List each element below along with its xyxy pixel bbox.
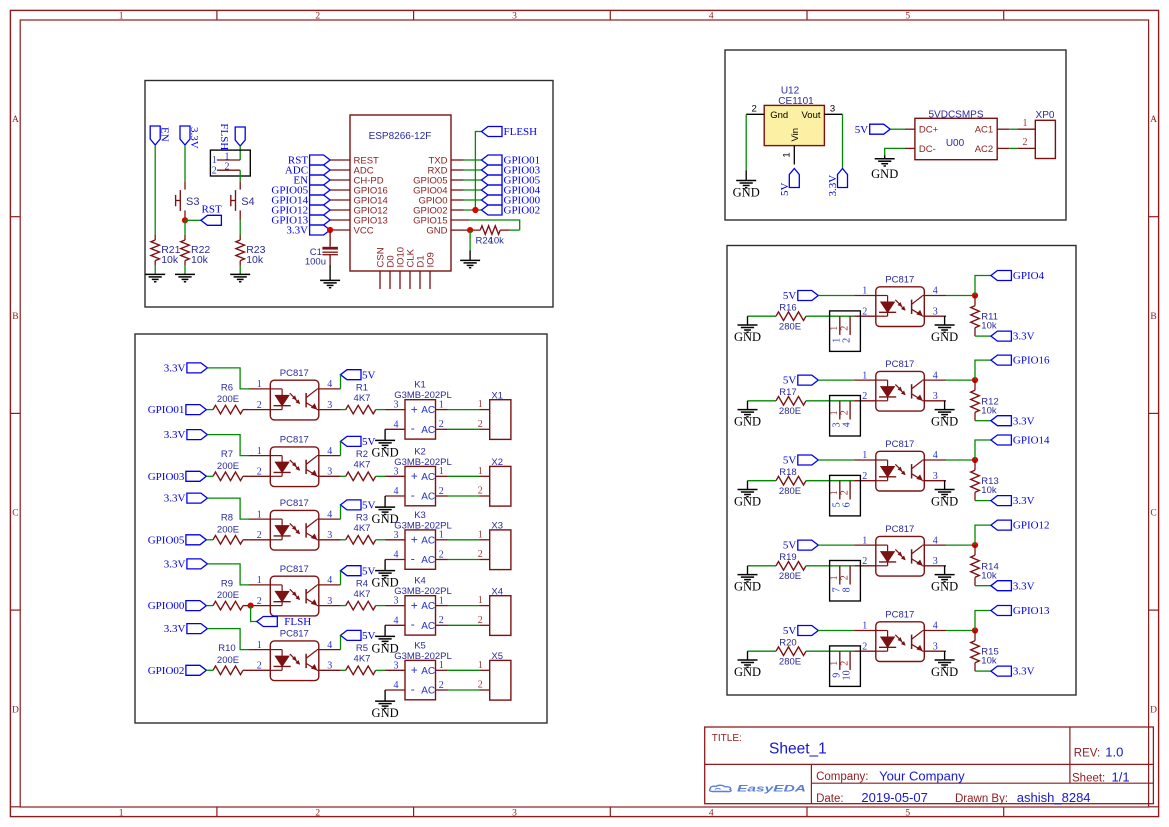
svg-text:R17: R17 — [779, 387, 796, 398]
svg-text:4: 4 — [394, 550, 399, 561]
svg-text:GPIO4: GPIO4 — [1013, 270, 1045, 282]
svg-text:R18: R18 — [779, 467, 796, 478]
svg-text:ashish_8284: ashish_8284 — [1017, 790, 1091, 805]
svg-text:3: 3 — [394, 660, 399, 671]
svg-text:3.3V: 3.3V — [286, 225, 308, 237]
svg-text:4: 4 — [394, 486, 399, 497]
svg-text:10k: 10k — [489, 236, 505, 247]
svg-text:10k: 10k — [981, 570, 997, 581]
svg-text:+: + — [411, 533, 418, 547]
svg-text:2: 2 — [439, 486, 444, 497]
svg-text:3.3V: 3.3V — [1013, 666, 1035, 678]
svg-text:Gnd: Gnd — [770, 110, 788, 121]
svg-text:1: 1 — [439, 595, 444, 606]
svg-text:2: 2 — [840, 575, 851, 580]
svg-text:4: 4 — [933, 370, 938, 381]
svg-text:AC: AC — [421, 405, 435, 416]
svg-text:R7: R7 — [221, 449, 233, 460]
svg-text:U00: U00 — [946, 138, 965, 149]
svg-text:AC: AC — [421, 666, 435, 677]
svg-text:4: 4 — [933, 450, 938, 461]
svg-text:4: 4 — [327, 640, 332, 651]
svg-text:R20: R20 — [779, 638, 796, 649]
svg-text:3.3V: 3.3V — [1013, 495, 1035, 507]
svg-text:3: 3 — [933, 306, 938, 317]
svg-text:CE1101: CE1101 — [778, 96, 814, 107]
svg-text:3: 3 — [933, 641, 938, 652]
svg-text:3.3V: 3.3V — [164, 559, 186, 571]
svg-text:PC817: PC817 — [885, 524, 914, 535]
svg-text:2: 2 — [842, 338, 853, 343]
svg-text:4: 4 — [394, 680, 399, 691]
svg-text:S4: S4 — [241, 196, 254, 208]
svg-text:X3: X3 — [491, 521, 503, 532]
svg-text:4: 4 — [842, 422, 853, 427]
svg-text:5: 5 — [905, 808, 910, 818]
svg-text:AC: AC — [421, 686, 435, 697]
svg-text:D: D — [1150, 705, 1157, 715]
svg-text:2: 2 — [257, 530, 262, 541]
svg-text:2: 2 — [257, 400, 262, 411]
svg-text:280E: 280E — [779, 321, 801, 332]
svg-text:REV:: REV: — [1074, 747, 1100, 759]
svg-text:3: 3 — [512, 12, 517, 22]
svg-text:1: 1 — [1023, 118, 1028, 129]
svg-text:2: 2 — [439, 615, 444, 626]
svg-text:4: 4 — [327, 446, 332, 457]
svg-text:GND: GND — [931, 495, 958, 509]
svg-text:GND: GND — [426, 225, 447, 236]
svg-text:5V: 5V — [779, 183, 791, 197]
svg-text:AC: AC — [421, 492, 435, 503]
svg-text:1: 1 — [257, 640, 262, 651]
svg-text:2: 2 — [840, 490, 851, 495]
svg-text:2: 2 — [478, 419, 483, 430]
svg-text:+: + — [411, 598, 418, 612]
svg-text:4: 4 — [327, 509, 332, 520]
svg-text:DC+: DC+ — [919, 125, 939, 136]
svg-text:3: 3 — [327, 530, 332, 541]
svg-text:1: 1 — [478, 399, 483, 410]
svg-text:Vin: Vin — [790, 128, 801, 142]
svg-text:X2: X2 — [491, 457, 503, 468]
svg-text:AC: AC — [421, 472, 435, 483]
svg-text:3: 3 — [394, 530, 399, 541]
svg-text:4: 4 — [327, 379, 332, 390]
svg-text:10k: 10k — [981, 656, 997, 667]
svg-text:4: 4 — [394, 419, 399, 430]
svg-text:1: 1 — [257, 446, 262, 457]
svg-text:3.3V: 3.3V — [164, 493, 186, 505]
svg-text:PC817: PC817 — [280, 368, 309, 379]
svg-text:2: 2 — [862, 641, 867, 652]
svg-text:R3: R3 — [356, 513, 368, 524]
svg-text:AC: AC — [421, 601, 435, 612]
svg-text:Date:: Date: — [816, 793, 844, 805]
svg-text:FLESH: FLESH — [504, 126, 538, 138]
svg-text:2: 2 — [257, 467, 262, 478]
svg-text:3: 3 — [933, 556, 938, 567]
svg-text:GND: GND — [733, 186, 760, 200]
svg-text:2: 2 — [1023, 137, 1028, 148]
svg-text:AC: AC — [421, 555, 435, 566]
svg-text:3.3V: 3.3V — [188, 127, 200, 149]
svg-text:GPIO05: GPIO05 — [148, 534, 185, 546]
svg-text:Sheet_1: Sheet_1 — [769, 740, 827, 757]
svg-text:1: 1 — [478, 660, 483, 671]
svg-text:1: 1 — [862, 535, 867, 546]
svg-text:5V: 5V — [783, 540, 797, 552]
svg-text:5V: 5V — [362, 630, 376, 642]
svg-text:PC817: PC817 — [885, 275, 914, 286]
svg-text:GPIO16: GPIO16 — [1013, 355, 1050, 367]
svg-text:2: 2 — [862, 556, 867, 567]
svg-text:PC817: PC817 — [280, 564, 309, 575]
svg-text:PC817: PC817 — [280, 435, 309, 446]
svg-text:4: 4 — [394, 615, 399, 626]
svg-text:5V: 5V — [855, 124, 869, 136]
svg-text:2: 2 — [257, 596, 262, 607]
svg-text:AC1: AC1 — [975, 125, 993, 136]
svg-text:3: 3 — [327, 467, 332, 478]
svg-text:1: 1 — [439, 660, 444, 671]
svg-text:5: 5 — [905, 12, 910, 22]
svg-text:1: 1 — [862, 370, 867, 381]
svg-text:2: 2 — [752, 103, 757, 114]
svg-text:10k: 10k — [246, 254, 264, 266]
svg-text:A: A — [12, 115, 19, 125]
svg-text:GPIO14: GPIO14 — [1013, 435, 1050, 447]
svg-text:280E: 280E — [779, 486, 801, 497]
svg-text:2: 2 — [840, 410, 851, 415]
svg-text:1.0: 1.0 — [1105, 745, 1123, 760]
svg-text:2: 2 — [315, 12, 320, 22]
svg-text:2: 2 — [439, 549, 444, 560]
svg-text:D: D — [12, 705, 19, 715]
svg-text:10k: 10k — [161, 254, 179, 266]
svg-text:PC817: PC817 — [885, 359, 914, 370]
svg-text:Sheet:: Sheet: — [1072, 772, 1105, 784]
svg-text:2: 2 — [212, 165, 217, 176]
svg-text:Drawn By:: Drawn By: — [955, 793, 1008, 805]
svg-text:1: 1 — [862, 450, 867, 461]
svg-text:10k: 10k — [981, 405, 997, 416]
svg-text:10k: 10k — [981, 321, 997, 332]
svg-text:3.3V: 3.3V — [1013, 331, 1035, 343]
svg-text:3.3V: 3.3V — [164, 429, 186, 441]
svg-text:4: 4 — [327, 575, 332, 586]
svg-text:1: 1 — [439, 399, 444, 410]
svg-text:2019-05-07: 2019-05-07 — [861, 790, 928, 805]
svg-text:GND: GND — [734, 580, 761, 594]
svg-text:R2: R2 — [356, 449, 368, 460]
svg-text:3: 3 — [394, 596, 399, 607]
svg-text:X4: X4 — [491, 586, 503, 597]
svg-text:2: 2 — [478, 680, 483, 691]
svg-text:AC: AC — [421, 535, 435, 546]
svg-text:R8: R8 — [221, 513, 233, 524]
svg-text:GND: GND — [734, 665, 761, 679]
svg-text:3.3V: 3.3V — [164, 363, 186, 375]
svg-text:4K7: 4K7 — [354, 589, 371, 600]
svg-text:K5: K5 — [414, 640, 426, 651]
svg-text:S3: S3 — [186, 196, 199, 208]
svg-text:3.3V: 3.3V — [164, 623, 186, 635]
svg-text:GND: GND — [734, 495, 761, 509]
svg-text:IO9: IO9 — [425, 252, 436, 267]
svg-text:GND: GND — [931, 330, 958, 344]
svg-text:2: 2 — [439, 680, 444, 691]
svg-text:5V: 5V — [362, 500, 376, 512]
svg-text:GND: GND — [931, 665, 958, 679]
svg-text:GND: GND — [931, 580, 958, 594]
svg-text:3: 3 — [394, 466, 399, 477]
svg-text:5V: 5V — [783, 455, 797, 467]
svg-text:4: 4 — [933, 621, 938, 632]
svg-text:AC: AC — [421, 425, 435, 436]
svg-text:2: 2 — [257, 661, 262, 672]
svg-text:R9: R9 — [221, 578, 233, 589]
svg-text:1: 1 — [782, 152, 793, 157]
svg-text:-: - — [411, 617, 415, 631]
svg-text:U12: U12 — [781, 86, 800, 97]
svg-text:R6: R6 — [221, 382, 233, 393]
svg-text:GND: GND — [931, 415, 958, 429]
svg-text:1: 1 — [862, 286, 867, 297]
svg-text:5V: 5V — [362, 436, 376, 448]
svg-text:1: 1 — [257, 509, 262, 520]
svg-text:GND: GND — [734, 415, 761, 429]
svg-text:-: - — [411, 421, 415, 435]
svg-text:1: 1 — [257, 379, 262, 390]
svg-text:4: 4 — [709, 12, 714, 22]
svg-text:Vout: Vout — [801, 110, 820, 121]
svg-text:B: B — [12, 312, 18, 322]
svg-text:6: 6 — [842, 502, 853, 507]
svg-text:2: 2 — [840, 326, 851, 331]
svg-text:R5: R5 — [356, 643, 368, 654]
svg-text:TITLE:: TITLE: — [712, 733, 742, 744]
svg-text:4K7: 4K7 — [354, 393, 371, 404]
svg-text:5VDCSMPS: 5VDCSMPS — [928, 109, 983, 120]
svg-text:3.3V: 3.3V — [1013, 580, 1035, 592]
svg-text:ESP8266-12F: ESP8266-12F — [369, 131, 432, 142]
svg-text:2: 2 — [315, 808, 320, 818]
svg-text:3: 3 — [512, 808, 517, 818]
svg-text:2: 2 — [862, 306, 867, 317]
svg-text:200E: 200E — [217, 394, 239, 405]
svg-text:2: 2 — [478, 615, 483, 626]
svg-text:A: A — [1150, 115, 1157, 125]
svg-text:PC817: PC817 — [885, 610, 914, 621]
svg-text:K3: K3 — [414, 510, 426, 521]
svg-text:GPIO02: GPIO02 — [148, 665, 185, 677]
svg-text:1: 1 — [257, 575, 262, 586]
svg-text:280E: 280E — [779, 406, 801, 417]
svg-text:2: 2 — [478, 486, 483, 497]
svg-text:3.3V: 3.3V — [827, 175, 839, 197]
svg-text:200E: 200E — [217, 590, 239, 601]
svg-text:1/1: 1/1 — [1112, 770, 1130, 785]
svg-text:Company:: Company: — [816, 771, 868, 783]
svg-text:EN: EN — [159, 127, 171, 142]
svg-text:GPIO13: GPIO13 — [1013, 605, 1050, 617]
svg-text:4K7: 4K7 — [354, 523, 371, 534]
svg-text:4: 4 — [933, 535, 938, 546]
svg-text:1: 1 — [478, 595, 483, 606]
svg-text:200E: 200E — [217, 461, 239, 472]
svg-text:-: - — [411, 682, 415, 696]
svg-text:2: 2 — [225, 162, 230, 173]
svg-text:AC: AC — [421, 621, 435, 632]
svg-text:-: - — [411, 551, 415, 565]
svg-text:1: 1 — [478, 466, 483, 477]
svg-text:PC817: PC817 — [280, 498, 309, 509]
svg-text:K2: K2 — [414, 446, 426, 457]
svg-text:FLSH: FLSH — [284, 616, 311, 628]
svg-text:Your Company: Your Company — [879, 769, 965, 784]
svg-text:4: 4 — [709, 808, 714, 818]
svg-text:2: 2 — [439, 419, 444, 430]
svg-text:4: 4 — [933, 286, 938, 297]
svg-text:+: + — [411, 402, 418, 416]
svg-text:3: 3 — [327, 596, 332, 607]
svg-text:5V: 5V — [362, 369, 376, 381]
svg-text:1: 1 — [119, 12, 124, 22]
svg-text:XP0: XP0 — [1036, 110, 1055, 121]
svg-text:1: 1 — [119, 808, 124, 818]
svg-text:FLSH: FLSH — [218, 123, 230, 150]
svg-text:5V: 5V — [783, 290, 797, 302]
svg-text:PC817: PC817 — [280, 629, 309, 640]
svg-text:R1: R1 — [356, 382, 368, 393]
svg-text:100u: 100u — [305, 257, 326, 268]
svg-text:3: 3 — [327, 400, 332, 411]
svg-text:5V: 5V — [362, 565, 376, 577]
svg-text:GPIO03: GPIO03 — [148, 471, 185, 483]
svg-text:GND: GND — [871, 167, 898, 181]
svg-text:C: C — [12, 509, 18, 519]
svg-text:8: 8 — [842, 587, 853, 592]
svg-text:-: - — [411, 488, 415, 502]
svg-text:280E: 280E — [779, 571, 801, 582]
svg-text:2: 2 — [862, 391, 867, 402]
svg-text:3: 3 — [830, 103, 835, 114]
svg-text:R16: R16 — [779, 303, 796, 314]
svg-text:X5: X5 — [491, 651, 503, 662]
svg-text:5V: 5V — [783, 625, 797, 637]
svg-text:+: + — [411, 469, 418, 483]
svg-text:GPIO00: GPIO00 — [148, 600, 185, 612]
svg-text:PC817: PC817 — [885, 439, 914, 450]
svg-text:1: 1 — [439, 530, 444, 541]
svg-text:GPIO01: GPIO01 — [148, 404, 185, 416]
svg-text:K4: K4 — [414, 576, 426, 587]
svg-text:3.3V: 3.3V — [1013, 415, 1035, 427]
svg-text:2: 2 — [478, 549, 483, 560]
svg-text:EasyEDA: EasyEDA — [737, 784, 806, 795]
svg-text:1: 1 — [478, 529, 483, 540]
svg-text:+: + — [411, 663, 418, 677]
svg-text:AC2: AC2 — [975, 144, 993, 155]
svg-text:1: 1 — [439, 466, 444, 477]
svg-text:10: 10 — [842, 670, 853, 680]
svg-text:3: 3 — [933, 471, 938, 482]
svg-text:K1: K1 — [414, 380, 426, 391]
svg-text:4K7: 4K7 — [354, 654, 371, 665]
svg-text:GND: GND — [734, 330, 761, 344]
svg-text:GPIO12: GPIO12 — [1013, 520, 1050, 532]
svg-text:X1: X1 — [491, 390, 503, 401]
svg-text:1: 1 — [862, 621, 867, 632]
svg-text:B: B — [1150, 312, 1156, 322]
svg-text:2: 2 — [862, 471, 867, 482]
svg-text:GND: GND — [372, 706, 399, 720]
svg-text:R10: R10 — [218, 643, 235, 654]
svg-text:3: 3 — [327, 661, 332, 672]
svg-text:C: C — [1150, 509, 1156, 519]
svg-text:RST: RST — [202, 203, 222, 215]
svg-text:5V: 5V — [783, 375, 797, 387]
svg-text:200E: 200E — [217, 655, 239, 666]
svg-text:VCC: VCC — [354, 225, 374, 236]
svg-text:R4: R4 — [356, 578, 368, 589]
svg-text:R19: R19 — [779, 552, 796, 563]
svg-text:200E: 200E — [217, 524, 239, 535]
svg-text:4K7: 4K7 — [354, 460, 371, 471]
svg-text:3: 3 — [394, 400, 399, 411]
svg-text:3: 3 — [933, 391, 938, 402]
svg-text:10k: 10k — [191, 254, 209, 266]
svg-text:280E: 280E — [779, 656, 801, 667]
svg-text:GPIO02: GPIO02 — [504, 205, 541, 217]
svg-text:2: 2 — [840, 661, 851, 666]
svg-text:DC-: DC- — [919, 144, 936, 155]
svg-text:10k: 10k — [981, 485, 997, 496]
